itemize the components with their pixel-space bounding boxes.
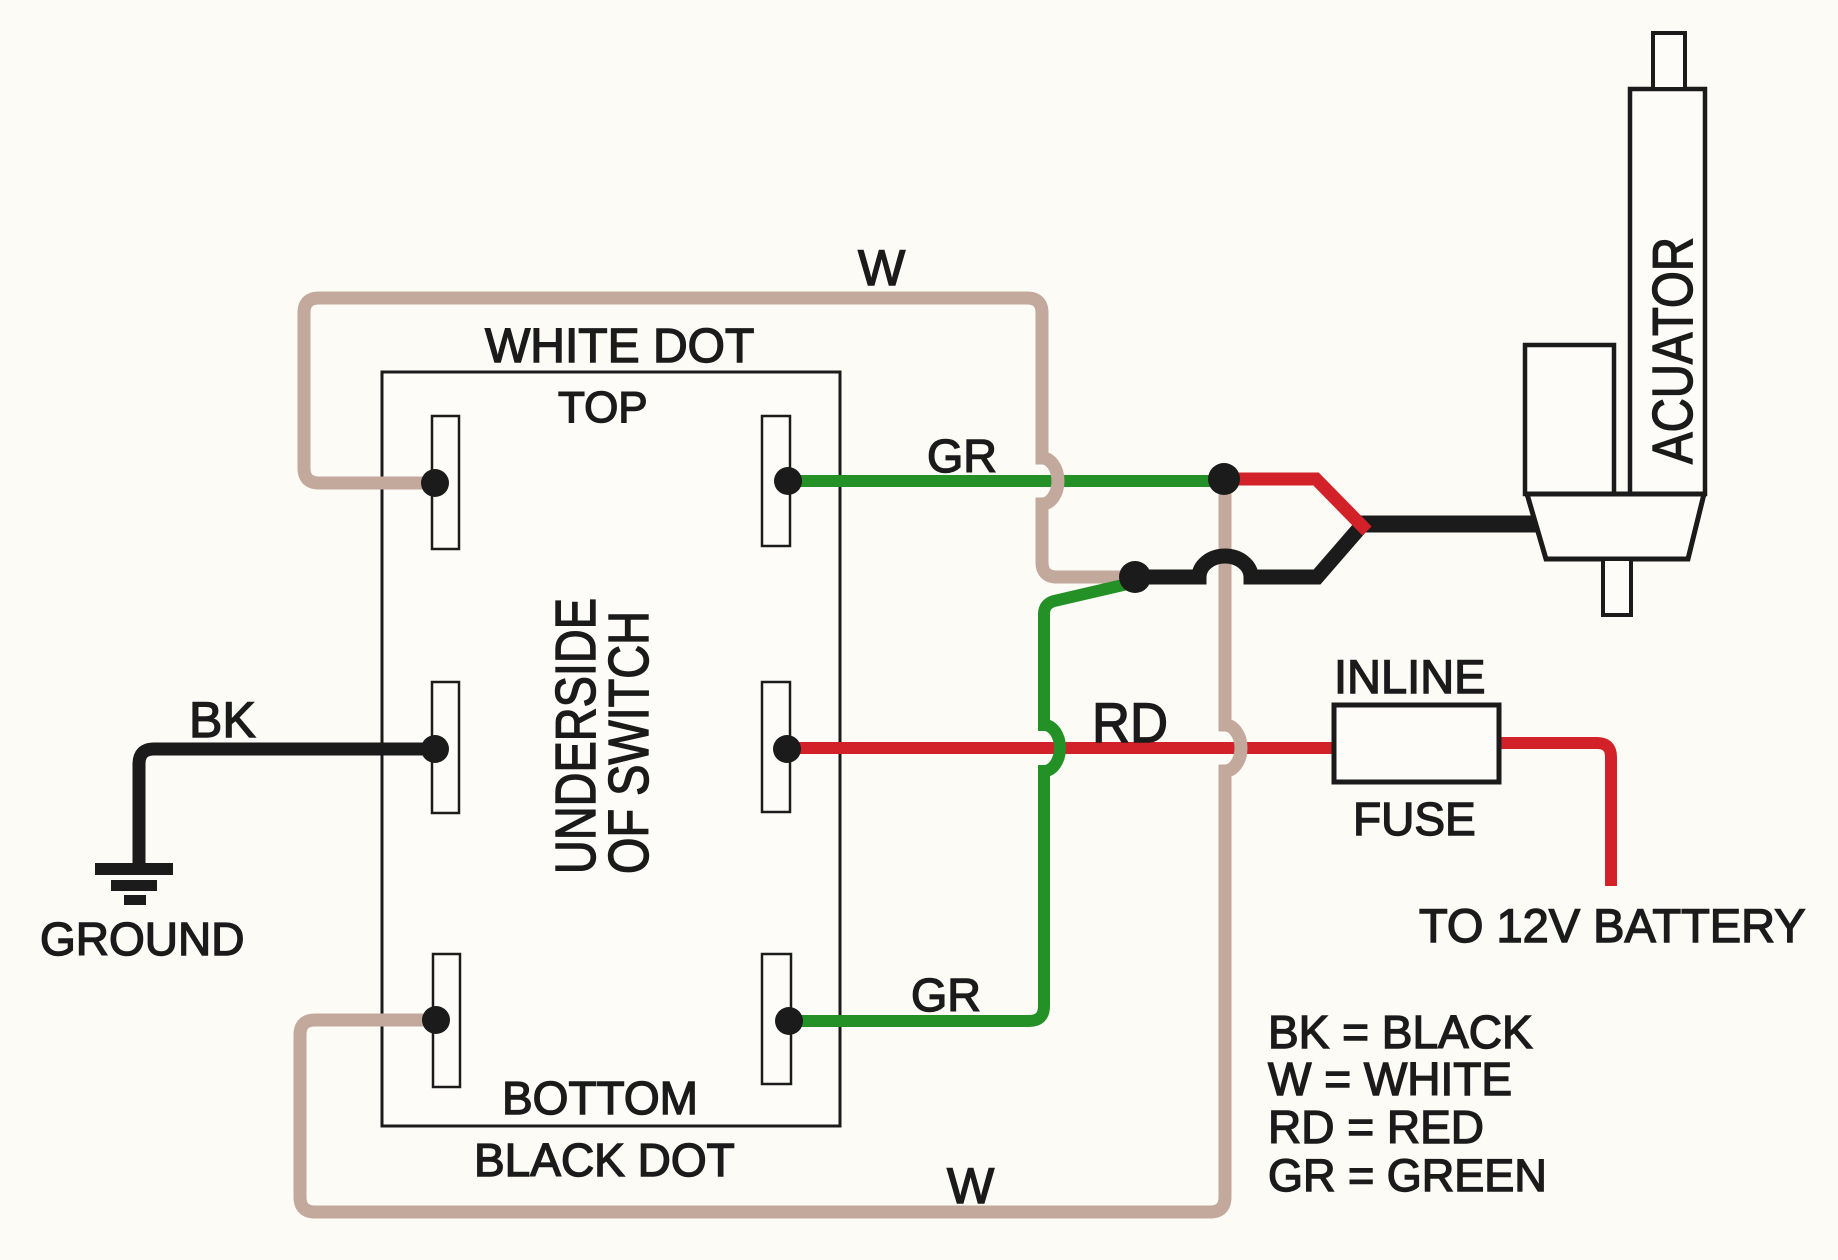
wire GR green top: top-right terminal to junction B [788,475,1224,487]
svg-text:GR: GR [927,430,997,482]
wire red: fuse to battery [1499,743,1611,886]
actuator body tall rectangle [1630,89,1705,494]
svg-text:BOTTOM: BOTTOM [502,1072,698,1124]
svg-text:GR: GR [911,969,981,1021]
svg-text:GROUND: GROUND [40,913,244,965]
wire W white top loop: top-left terminal over top to junction A [304,298,1135,577]
wire RD red main: mid-right terminal to fuse [787,742,1334,754]
junction dot B (green/red/white) [1208,463,1240,495]
wire black: junction A to splice vertex with hop over white wire [1135,524,1363,577]
svg-text:TO 12V BATTERY: TO 12V BATTERY [1419,899,1806,952]
terminal dot top-right [774,467,802,495]
terminal dot mid-right [773,735,801,763]
wire W white bottom loop: bottom-left terminal along bottom up to junction B [300,481,1241,1212]
svg-text:RD = RED: RD = RED [1268,1101,1484,1153]
svg-text:BK: BK [189,692,256,748]
svg-text:W = WHITE: W = WHITE [1268,1053,1512,1105]
inline fuse box [1334,705,1499,782]
wire red: junction B to splice vertex [1224,479,1367,531]
wire BK black: mid-left terminal to ground [139,749,435,866]
wire GR green bottom: bottom-right terminal up to junction A [789,582,1136,1021]
actuator left block [1525,345,1614,494]
svg-text:BK = BLACK: BK = BLACK [1268,1006,1533,1058]
svg-text:FUSE: FUSE [1353,793,1476,845]
ground symbol [95,863,173,905]
terminal pin top-left [432,416,459,549]
actuator top stub [1653,33,1685,89]
svg-text:ACUATOR: ACUATOR [1641,237,1705,464]
svg-text:WHITE DOT: WHITE DOT [485,320,754,373]
svg-text:GR = GREEN: GR = GREEN [1268,1150,1547,1201]
terminal pin mid-right [762,682,790,812]
svg-text:OF SWITCH: OF SWITCH [597,611,661,874]
wire black thick: splice to actuator [1357,516,1538,533]
actuator base trapezoid [1527,494,1704,559]
terminal pin bottom-right [762,954,791,1084]
terminal dot bottom-right [775,1007,803,1035]
actuator bottom stub [1603,559,1631,615]
terminal dot mid-left [421,735,449,763]
svg-text:W: W [858,240,906,296]
svg-text:RD: RD [1092,691,1168,754]
svg-text:INLINE: INLINE [1334,650,1486,703]
svg-text:W: W [947,1158,995,1214]
switch body outline [382,372,840,1126]
terminal pin mid-left [432,682,459,813]
terminal dot top-left [421,469,449,497]
svg-text:TOP: TOP [558,383,648,432]
svg-text:BLACK DOT: BLACK DOT [474,1134,735,1186]
terminal pin bottom-left [433,954,460,1087]
terminal dot bottom-left [422,1006,450,1034]
junction dot A (black/green/white) [1119,561,1151,593]
terminal pin top-right [762,416,790,546]
